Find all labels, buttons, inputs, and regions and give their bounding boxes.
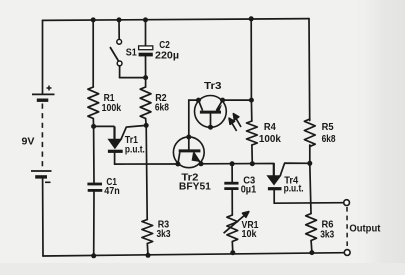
wire battery negative lead — [42, 179, 44, 257]
wire Tr1 anode feed — [94, 125, 114, 127]
node Tr3 right lead dot — [220, 98, 225, 103]
wire R4 upper lead — [250, 100, 252, 121]
svg-text:10k: 10k — [242, 229, 257, 240]
transistor Tr1 p.u.t. triangle — [108, 139, 121, 148]
node emitter rail / R4 / Tr4 anode — [250, 161, 255, 166]
wire emitter rail to Tr4 anode — [201, 163, 274, 165]
variable resistor VR1 — [227, 215, 238, 242]
wire R1 top lead — [92, 20, 94, 87]
transistor Tr1 cathode bar — [108, 150, 123, 153]
resistor R3 — [142, 220, 153, 244]
switch S1 bottom contact — [117, 61, 122, 66]
resistor R1 — [88, 87, 99, 119]
svg-text:3k3: 3k3 — [320, 230, 334, 241]
battery minus sign — [45, 181, 51, 183]
node S1/C2/R2 junction — [143, 75, 148, 80]
wire R2-R3 link — [146, 125, 147, 219]
node bottom rail / C1 — [91, 253, 96, 258]
svg-text:6k8: 6k8 — [322, 134, 336, 145]
svg-text:S1: S1 — [126, 47, 137, 58]
battery dashed middle link — [41, 104, 43, 169]
wire C3 top lead — [231, 164, 233, 182]
wire R1 bottom lead — [92, 119, 94, 127]
resistor R4 — [247, 121, 258, 145]
wire battery positive lead — [42, 20, 44, 93]
transistor Tr1 gate lead — [121, 125, 146, 139]
svg-text:100k: 100k — [102, 103, 122, 114]
node Tr3 base stub dot — [208, 125, 213, 130]
svg-text:0µ1: 0µ1 — [241, 184, 257, 195]
transistor Tr4 cathode bar — [268, 187, 282, 190]
svg-text:3k3: 3k3 — [157, 229, 171, 240]
svg-text:BFY51: BFY51 — [179, 181, 211, 192]
wire R2 top lead — [145, 78, 147, 87]
wire top supply rail — [43, 19, 310, 21]
transistor Tr2 emitter arrowhead — [192, 153, 201, 163]
wire C1 top lead — [93, 126, 95, 182]
wire R2 bottom lead — [145, 119, 148, 126]
wire S1 bottom lead — [119, 66, 121, 78]
wire C1 bottom lead — [93, 192, 95, 256]
transistor Tr4 gate lead — [280, 163, 310, 176]
transistor Tr2 base bar — [179, 149, 201, 152]
node bottom rail / VR1 — [230, 250, 235, 255]
output terminal bottom — [344, 250, 350, 256]
svg-text:100k: 100k — [259, 134, 281, 145]
wire R5-R6 link crossing output wire — [310, 163, 311, 213]
resistor R2 — [140, 87, 151, 119]
VR1 adjustment arrow — [224, 212, 249, 234]
wire R6 bottom lead — [310, 241, 313, 253]
node top rail / S1 — [117, 17, 122, 22]
capacitor C2 (electrolytic) positive plate — [139, 46, 153, 50]
transistor Tr3 emitter arrowhead — [215, 105, 222, 112]
light arrow lower pointing at Tr3 — [229, 118, 237, 131]
node Tr3 left lead dot — [196, 98, 201, 103]
capacitor C2 negative plate — [139, 53, 153, 57]
transistor Tr1 p.u.t. anode lead — [113, 126, 115, 139]
node R4 line / Tr3 junction — [249, 98, 254, 103]
wire Tr3 to R4 line — [223, 99, 252, 101]
transistor Tr2 collector lead (left) — [178, 152, 180, 164]
output dashed link — [346, 207, 348, 248]
node B gate junction R2/R3/Tr1 gate — [144, 123, 149, 128]
capacitor C1 — [87, 183, 102, 186]
node bottom rail / R6 — [309, 250, 314, 255]
wire Tr4 cathode lead down — [273, 190, 275, 203]
transistor Tr2 base lead from above — [188, 137, 190, 150]
battery B1 bottom cell — [31, 170, 52, 172]
wire Tr4 cathode to output — [274, 202, 344, 205]
svg-text:Output: Output — [349, 224, 381, 235]
node bottom rail / R3 — [146, 253, 151, 258]
switch S1 top contact — [117, 39, 122, 44]
wire Tr1 cathode to Tr2 — [115, 163, 178, 165]
svg-text:R5: R5 — [322, 122, 334, 133]
transistor Tr4 p.u.t. anode lead — [273, 164, 275, 177]
wire C3 bottom lead — [231, 190, 233, 215]
light arrow upper pointing at Tr3 — [233, 114, 241, 127]
wire R5 top lead — [308, 19, 311, 121]
node emitter rail / C3 — [230, 161, 235, 166]
wire R5 bottom lead — [309, 145, 311, 163]
battery plus sign — [47, 86, 52, 91]
wire bottom ground rail — [43, 253, 344, 256]
wire S1 to C2 junction — [120, 77, 146, 79]
transistor Tr3 base stub lead — [210, 114, 212, 128]
node top rail / C2 — [143, 17, 148, 22]
transistor Tr3 base bar — [200, 111, 221, 114]
svg-text:220µ: 220µ — [155, 51, 179, 62]
wire R3 bottom lead — [146, 244, 149, 256]
svg-text:6k8: 6k8 — [155, 103, 169, 114]
wire Tr2 base to Tr3 left lead — [189, 100, 199, 137]
node Tr2 emitter junction — [199, 161, 204, 166]
transistor Tr3 right lead with arrow — [217, 100, 223, 110]
svg-text:p.u.t.: p.u.t. — [284, 184, 304, 195]
output terminal top — [344, 200, 350, 206]
wire S1 top lead — [118, 20, 120, 39]
wire R4 bottom lead — [251, 145, 253, 164]
wire R4 top lead — [250, 19, 252, 100]
transistor Tr2 emitter lead with arrow (right) — [194, 152, 201, 163]
wire C2 bottom lead — [145, 56, 147, 77]
wire Tr1 cathode lead down — [114, 153, 116, 164]
resistor R6 — [306, 214, 317, 241]
switch S1 lever (open) — [110, 48, 118, 62]
svg-text:p.u.t.: p.u.t. — [125, 144, 145, 155]
node top rail / R1 — [91, 17, 96, 22]
transistor Tr2 circle — [173, 137, 204, 168]
wire C2 top lead — [145, 20, 147, 46]
svg-text:R4: R4 — [264, 122, 276, 133]
resistor R5 — [304, 119, 315, 147]
battery B1 9V top cell — [32, 93, 55, 95]
node top rail / R4 line — [249, 16, 254, 21]
transistor Tr3 left lead — [198, 100, 202, 111]
transistor Tr4 p.u.t. triangle — [267, 176, 280, 185]
node A anode junction R1/C1/Tr1 — [91, 124, 96, 129]
wire VR1 bottom lead — [231, 242, 234, 253]
node gate rail / R5 / R6 line — [307, 161, 312, 166]
svg-text:9V: 9V — [22, 137, 35, 148]
node Tr2 base dot — [186, 135, 191, 140]
capacitor C3 — [224, 182, 238, 185]
svg-text:47n: 47n — [104, 186, 120, 197]
node Tr2 collector junction — [175, 162, 180, 167]
svg-text:Tr3: Tr3 — [204, 81, 222, 92]
transistor Tr3 circle — [195, 96, 227, 128]
